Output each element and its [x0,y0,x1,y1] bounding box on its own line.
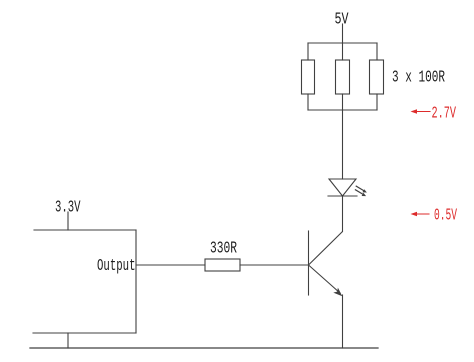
transistor Q1 (NPN) [309,231,343,296]
LED D1 [328,179,367,196]
wire block to ground rail [67,333,69,348]
ground rail [30,347,378,349]
wire bottom rail to LED anode [342,110,344,179]
microcontroller block [33,230,136,333]
wire R2 to bottom rail [342,94,344,110]
svg-text:3 x 100R: 3 x 100R [392,69,445,88]
wire Output pin to R4 [136,264,205,266]
wire resistor-bank bottom rail [308,109,377,111]
wire R3 to bottom rail [376,94,378,110]
resistor R2 (100R middle) [336,60,350,94]
resistor R3 (100R right) [370,60,384,94]
svg-text:2.7V: 2.7V [432,105,457,124]
wire 5V supply lead [342,24,344,60]
svg-text:Output: Output [97,257,136,276]
wire R1 to bottom rail [307,94,309,110]
svg-text:330R: 330R [210,240,237,259]
svg-text:0.5V: 0.5V [434,207,457,226]
annotation arrow 0.5V [411,212,430,216]
svg-text:5V: 5V [335,11,350,30]
wire resistor-bank top rail [308,42,377,44]
wire top rail to R3 [376,43,378,60]
wire 3.3V lead [67,212,69,230]
wire R4 to Q1 base [240,264,308,266]
resistor R4 (330R) [205,259,240,271]
wire Q1 emitter to ground rail [342,295,344,348]
resistor R1 (100R left) [302,60,315,94]
wire top rail to R1 [307,43,309,60]
wire LED cathode to Q1 collector [342,196,344,232]
annotation arrow 2.7V [411,109,431,113]
